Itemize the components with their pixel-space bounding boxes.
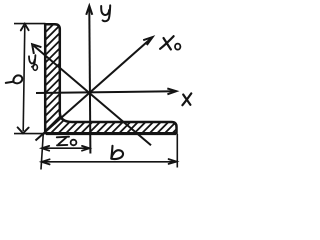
dimension b left: extension line bottom	[14, 133, 44, 135]
dimension b bottom: arrow left	[42, 159, 50, 164]
dimension b bottom: right extension line	[176, 134, 178, 168]
hatching	[0, 0, 306, 160]
x axis label	[182, 93, 191, 105]
dimension b left: dimension line	[23, 26, 25, 131]
dimension b left: arrow down	[18, 127, 29, 133]
dimension z0: left extension line	[41, 135, 43, 170]
x axis	[36, 88, 176, 94]
x0 axis label	[160, 36, 180, 49]
dimension b left: arrow up	[21, 24, 29, 31]
dimension z0: dimension line	[42, 147, 89, 149]
y0 axis label	[29, 55, 37, 70]
dimension z0: label	[57, 137, 77, 146]
dimension z0: arrow left	[42, 146, 49, 151]
y0 axis	[32, 44, 151, 145]
dimension b left: extension line top	[14, 23, 46, 25]
dimension b bottom: arrow right	[169, 159, 177, 164]
dimension z0: arrow right	[82, 146, 89, 151]
dimension b bottom: dimension line	[42, 161, 176, 163]
y axis label	[101, 5, 110, 21]
angle section bottom edge (thicker)	[46, 133, 176, 135]
angle section outline	[45, 24, 176, 133]
x0 axis	[36, 37, 153, 140]
y axis	[86, 6, 92, 154]
dimension b left: label	[6, 75, 22, 83]
dimension b bottom: label	[111, 146, 123, 159]
